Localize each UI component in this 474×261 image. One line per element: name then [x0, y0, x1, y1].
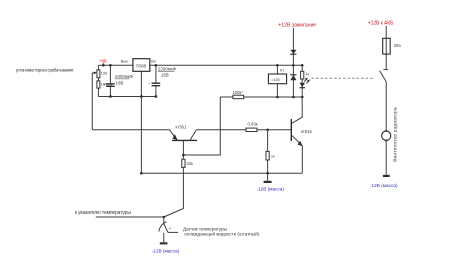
diode VD1 series from ignition	[290, 28, 296, 65]
switch contact K1.1	[380, 70, 388, 82]
sensor switch (coolant temperature sensor)	[152, 217, 180, 254]
svg-text:100: 100	[101, 71, 108, 76]
regulator U1 7808	[121, 59, 156, 72]
wire VT1 collector to VT2 base	[196, 129, 291, 131]
resistor 0,43k	[246, 121, 258, 131]
LED VD3	[300, 78, 311, 88]
wire divider to VT1 emitter	[92, 129, 169, 131]
capacitor C2 1000mkF 16V	[103, 65, 134, 96]
svg-text:+: +	[103, 83, 105, 87]
svg-text:-12В (масса): -12В (масса)	[152, 249, 180, 254]
svg-text:=12В: =12В	[271, 78, 280, 82]
svg-text:К1: К1	[280, 69, 284, 73]
svg-text:33к: 33к	[186, 161, 193, 166]
svg-text:0,43к: 0,43к	[248, 121, 258, 126]
svg-text:охлаждающей жидкости (штатный): охлаждающей жидкости (штатный)	[184, 231, 259, 237]
wire to fan	[385, 81, 387, 131]
diode VD2 flyback across relay	[290, 65, 296, 97]
svg-text:кт815: кт815	[301, 129, 312, 134]
svg-text:Вых: Вых	[121, 59, 129, 64]
svg-text:2200мкФ: 2200мкФ	[158, 67, 177, 72]
wire wiper drop	[91, 73, 93, 130]
wire feedback top run	[220, 96, 302, 98]
svg-text:установка порога срабатывания: установка порога срабатывания	[16, 67, 74, 72]
node dots C2	[109, 64, 112, 67]
svg-text:+: +	[148, 82, 150, 86]
wire 7808 ground pin	[140, 71, 142, 173]
svg-text:16В: 16В	[116, 80, 124, 85]
ground symbol right	[370, 175, 398, 188]
wire VT2 emitter drop	[301, 146, 303, 173]
svg-text:100к*: 100к*	[233, 90, 244, 95]
transistor VT1 kt361	[170, 124, 198, 140]
wire VT1 base lead	[182, 141, 184, 159]
svg-text:+8В: +8В	[99, 59, 107, 64]
svg-text:7808: 7808	[136, 63, 147, 69]
wire sensor line from 33k down	[164, 167, 184, 217]
fuse 20a	[383, 26, 402, 70]
svg-text:20а: 20а	[394, 43, 402, 48]
node +8	[99, 59, 107, 67]
resistor 100k*	[233, 90, 244, 99]
resistor 33k	[182, 159, 193, 167]
wire bottom-left rail	[98, 96, 155, 98]
svg-text:1000мкФ: 1000мкФ	[115, 74, 134, 79]
svg-text:16В: 16В	[161, 73, 169, 78]
wire left column (divider)	[97, 65, 99, 96]
wire base feedback	[183, 97, 220, 155]
wire ground rail	[141, 172, 302, 174]
svg-text:1к: 1к	[271, 154, 275, 159]
svg-text:-12В (масса): -12В (масса)	[370, 183, 398, 188]
wire top +12V rail	[98, 64, 302, 66]
potentiometer lower of divider, 100om	[97, 81, 113, 88]
svg-text:1к: 1к	[305, 71, 309, 76]
svg-text:Вх: Вх	[151, 59, 156, 64]
wiper arrow	[92, 71, 97, 74]
capacitor C3 2200mkF 16V	[148, 65, 176, 96]
wire to temperature gauge	[96, 216, 164, 218]
svg-text:+12В к АКБ: +12В к АКБ	[368, 21, 394, 27]
resistor 1k base pulldown	[266, 130, 275, 173]
resistor R upper of divider, 100	[97, 70, 108, 78]
svg-text:к указателю температуры: к указателю температуры	[75, 210, 132, 216]
svg-text:кт361: кт361	[176, 124, 187, 129]
svg-text:+12В зажигание: +12В зажигание	[278, 22, 316, 28]
transistor VT2 kt815	[291, 119, 312, 146]
wire VT2 collector riser	[292, 97, 302, 123]
svg-text:-12В (масса): -12В (масса)	[257, 186, 285, 191]
svg-text:Вентилятор радиатора: Вентилятор радиатора	[392, 107, 398, 162]
motor M fan	[382, 131, 391, 141]
relay K1 coil	[268, 65, 286, 97]
resistor 1k LED	[301, 65, 310, 97]
wire fan to ground	[385, 140, 387, 174]
ground symbol middle	[257, 173, 285, 191]
dashed mechanical link	[312, 77, 375, 79]
